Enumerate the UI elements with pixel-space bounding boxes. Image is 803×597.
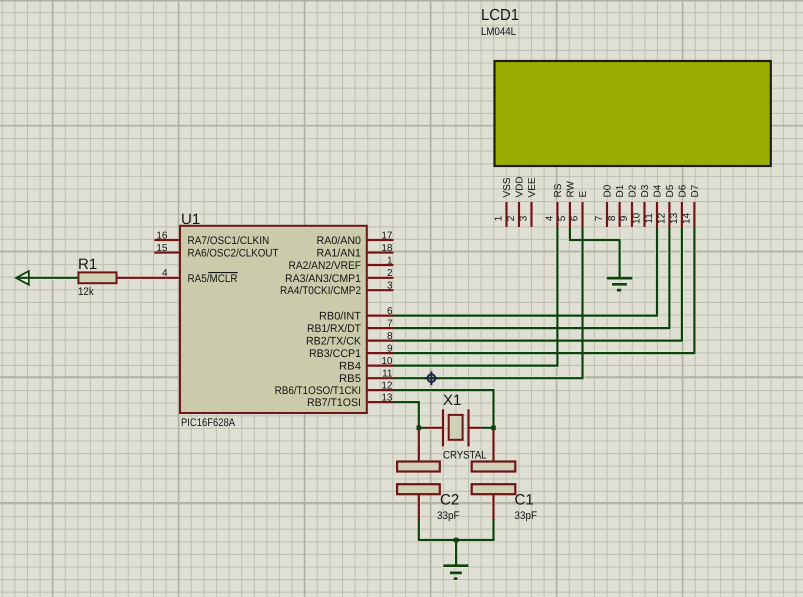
svg-text:CRYSTAL: CRYSTAL (443, 450, 487, 462)
svg-text:RB2/TX/CK: RB2/TX/CK (306, 336, 362, 348)
svg-text:1: 1 (494, 215, 505, 221)
svg-text:U1: U1 (181, 211, 200, 228)
svg-text:11: 11 (382, 369, 393, 380)
svg-text:LM044L: LM044L (481, 26, 516, 38)
svg-text:D0: D0 (603, 184, 614, 197)
svg-text:RA2/AN2/VREF: RA2/AN2/VREF (289, 260, 362, 272)
svg-text:12: 12 (657, 212, 668, 224)
svg-text:6: 6 (387, 306, 393, 317)
svg-text:VEE: VEE (527, 177, 538, 197)
svg-text:3: 3 (387, 281, 393, 292)
svg-text:RA1/AN1: RA1/AN1 (317, 248, 362, 260)
svg-text:RA7/OSC1/CLKIN: RA7/OSC1/CLKIN (188, 235, 270, 247)
svg-text:12: 12 (381, 381, 393, 392)
svg-text:R1: R1 (78, 256, 97, 273)
svg-text:RB4: RB4 (339, 361, 361, 373)
svg-text:8: 8 (387, 331, 393, 342)
svg-text:D3: D3 (640, 184, 651, 197)
svg-text:RS: RS (553, 183, 564, 197)
svg-text:4: 4 (162, 268, 168, 279)
svg-text:LCD1: LCD1 (481, 7, 519, 24)
svg-text:33pF: 33pF (437, 510, 460, 522)
svg-text:9: 9 (619, 215, 630, 221)
svg-text:RB0/INT: RB0/INT (319, 311, 361, 323)
svg-text:X1: X1 (443, 392, 461, 409)
svg-text:C2: C2 (440, 492, 459, 509)
svg-text:13: 13 (669, 212, 680, 224)
svg-text:RB1/RX/DT: RB1/RX/DT (307, 323, 361, 335)
svg-text:14: 14 (682, 212, 693, 224)
svg-text:7: 7 (387, 319, 393, 330)
svg-text:16: 16 (156, 230, 168, 241)
svg-text:10: 10 (381, 356, 393, 367)
svg-text:D5: D5 (665, 184, 676, 197)
svg-text:10: 10 (632, 212, 643, 224)
svg-text:17: 17 (381, 230, 393, 241)
svg-text:VSS: VSS (502, 177, 513, 197)
svg-text:2: 2 (506, 215, 517, 221)
svg-text:4: 4 (545, 215, 556, 221)
svg-text:13: 13 (381, 393, 393, 404)
svg-text:15: 15 (156, 243, 168, 254)
svg-text:RA5/MCLR: RA5/MCLR (188, 273, 238, 285)
svg-text:PIC16F628A: PIC16F628A (181, 417, 236, 429)
svg-text:RB7/T1OSI: RB7/T1OSI (307, 397, 361, 409)
svg-text:RB6/T1OSO/T1CKI: RB6/T1OSO/T1CKI (275, 385, 361, 397)
svg-text:7: 7 (594, 215, 605, 221)
svg-text:VDD: VDD (515, 176, 526, 197)
svg-text:12k: 12k (78, 286, 94, 298)
svg-text:RA4/T0CKI/CMP2: RA4/T0CKI/CMP2 (280, 285, 361, 297)
svg-text:RA0/AN0: RA0/AN0 (317, 235, 362, 247)
svg-text:RA3/AN3/CMP1: RA3/AN3/CMP1 (285, 273, 361, 285)
svg-text:1: 1 (387, 255, 393, 266)
svg-text:5: 5 (557, 215, 568, 221)
svg-text:D4: D4 (653, 184, 664, 197)
svg-text:RB5: RB5 (339, 373, 361, 385)
svg-text:RA6/OSC2/CLKOUT: RA6/OSC2/CLKOUT (188, 248, 279, 260)
svg-text:33pF: 33pF (515, 510, 538, 522)
svg-text:D7: D7 (690, 184, 701, 197)
svg-text:D2: D2 (628, 184, 639, 197)
svg-text:9: 9 (387, 344, 393, 355)
svg-text:2: 2 (387, 268, 393, 279)
svg-text:11: 11 (644, 213, 655, 224)
svg-text:D6: D6 (678, 184, 689, 197)
svg-text:18: 18 (381, 243, 393, 254)
svg-text:6: 6 (570, 215, 581, 221)
svg-text:8: 8 (607, 215, 618, 221)
svg-text:E: E (578, 191, 589, 198)
svg-text:RB3/CCP1: RB3/CCP1 (309, 348, 361, 360)
svg-text:RW: RW (566, 180, 577, 197)
svg-text:D1: D1 (615, 184, 626, 197)
svg-text:C1: C1 (515, 492, 534, 509)
svg-text:3: 3 (519, 215, 530, 221)
